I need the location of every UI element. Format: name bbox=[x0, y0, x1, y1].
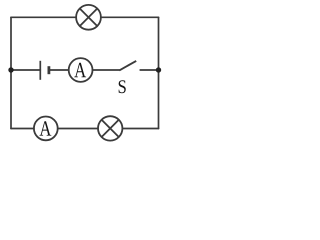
lamp bottom (circle with X) bbox=[98, 116, 122, 140]
wire right vertical bbox=[158, 17, 160, 128]
wire battery to ammeter bbox=[49, 69, 69, 71]
switch S arm bbox=[119, 61, 136, 71]
ammeter A2 (bottom branch) bbox=[34, 116, 58, 140]
wire switch to right node bbox=[140, 69, 158, 71]
switch S label bbox=[119, 80, 126, 93]
wire ammeter to switch bbox=[93, 69, 120, 71]
wire top-left segment bbox=[11, 16, 76, 18]
ammeter A1 (middle branch) bbox=[69, 58, 93, 82]
wire bottom-middle segment bbox=[58, 128, 98, 130]
wire bottom-right segment bbox=[122, 128, 158, 130]
wire middle branch: node to battery bbox=[11, 69, 40, 71]
battery cell: short thick plate bbox=[48, 66, 51, 74]
node right junction dot bbox=[156, 67, 161, 72]
node left junction dot bbox=[8, 67, 13, 72]
battery cell: long plate bbox=[39, 61, 41, 80]
wire top-right segment bbox=[101, 16, 159, 18]
wire left vertical bbox=[10, 17, 12, 128]
wire bottom-left segment bbox=[11, 128, 34, 130]
lamp top (circle with X) bbox=[76, 5, 101, 30]
